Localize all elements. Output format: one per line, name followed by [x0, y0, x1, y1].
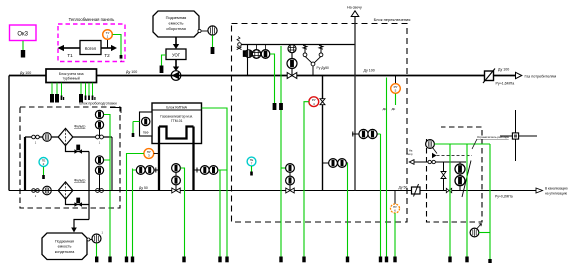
pipe: filter outlet vertical: [111, 137, 113, 191]
valve bubbles pair left on riser 1: [136, 166, 159, 175]
wire: green tap from main line with ДК labels: [383, 78, 396, 257]
bottom signal terminators row: [95, 257, 492, 264]
arrow: gas to consumers: [516, 72, 557, 78]
label Ду50 left: [139, 186, 148, 190]
wire: green tap from flare header: [280, 46, 282, 103]
label Ру1,6МПа under outlet valve: [496, 82, 515, 86]
flow restrictor cross symbol: [500, 110, 537, 161]
wire: green from УОГ left side: [162, 55, 167, 66]
svg-text:Ру≈1,6МПа: Ру≈1,6МПа: [496, 82, 515, 86]
analyzer sample loop (thick U pipe): [159, 127, 194, 191]
control valve station riser: [291, 45, 293, 76]
instrument bubble TE cyan near switching unit: [247, 157, 256, 166]
valve: closed valves pair on green taps: [273, 103, 283, 110]
svg-text:Ограничитель расхода: Ограничитель расхода: [477, 135, 509, 139]
pipe: drain vessel inlet line: [409, 160, 466, 165]
valve bubbles stacked on drain stub x290: [281, 164, 294, 191]
svg-text:ГТМ-01: ГТМ-01: [171, 119, 183, 123]
valve: closed valve under LT: [211, 47, 215, 54]
main gas pipe Ду100: [9, 75, 485, 77]
instrument bubble orange on sample riser: [144, 149, 154, 159]
vent fitting at flare header start: [237, 37, 242, 50]
svg-text:Подземная: Подземная: [166, 15, 187, 20]
wire: green header of drain vessel: [434, 143, 490, 145]
tank: Подземная емкость оборотная: [153, 11, 199, 37]
analyzer house box (Блок КИПиА): [152, 103, 202, 144]
wire: green stub under cyan TE: [250, 166, 253, 176]
valve: closed valve on УОГ drain: [160, 66, 164, 74]
svg-text:Блок переключения: Блок переключения: [374, 17, 411, 22]
wire: green from LT bubble down: [212, 35, 214, 47]
filter F1 (diamond): [58, 125, 85, 146]
svg-text:емкость: емкость: [58, 245, 72, 249]
svg-text:Т2: Т2: [104, 53, 110, 58]
valve: bowtie on drain header in vessel: [446, 188, 451, 192]
wire: tank nozzle to level bubble: [198, 29, 208, 32]
wire: green drops from metering box: [52, 83, 93, 96]
svg-text:Ду 100: Ду 100: [20, 71, 31, 75]
wire: green from flare drain tee: [378, 134, 381, 257]
svg-text:ДК: ДК: [383, 107, 387, 111]
instrument bubble orange at drain: [391, 204, 400, 213]
flange pair on branch 1: [32, 135, 40, 144]
filter unit dashed enclosure (Блок пробоподготовки): [20, 102, 121, 209]
wire: green under orange bubble: [395, 94, 397, 105]
svg-text:ДК: ДК: [392, 107, 396, 111]
pipe: filter header vertical: [24, 137, 26, 191]
wire: riser from main to filters: [8, 76, 10, 191]
outlet control valve to consumers: [483, 69, 495, 84]
valve: control bowtie on main line: [287, 73, 297, 79]
wire: green stub from middle valves: [181, 168, 185, 257]
wire: green to ГВФ box: [132, 122, 140, 138]
tank: Подземная емкость конденсата: [42, 233, 87, 260]
svg-text:турбинный: турбинный: [63, 77, 80, 81]
wire: green under LT bubble: [96, 243, 98, 256]
pipe: blowdown riser: [322, 76, 324, 191]
instrument bubble on vent: [426, 140, 437, 154]
vent line to flare (dashed): [406, 149, 472, 159]
label Ду100 left: [20, 71, 31, 75]
label: Ограничитель расхода: [472, 135, 509, 149]
svg-text:Подземная: Подземная: [55, 240, 74, 244]
valve: closed valve on filter 1 drain: [74, 145, 82, 154]
wire: green signal from TT bubble: [113, 35, 122, 56]
valve: bowtie on drain under analyzer: [172, 188, 180, 193]
valve bubbles stacked in drain vessel: [455, 161, 471, 198]
wire: green below orange drain bubble: [394, 213, 396, 257]
instrument bubble TT (orange) on heat panel: [103, 30, 113, 40]
wire: link bubble to riser: [154, 153, 159, 155]
instrument bubble on branch 2: [43, 186, 52, 195]
drain header Ду50: [9, 190, 536, 192]
arrow: drain to sewer: [536, 187, 568, 196]
wire: green stub under TE: [42, 167, 45, 179]
pipe: filter 2 drain to tank: [66, 152, 90, 233]
flange pair on branch 2: [32, 189, 40, 198]
flare tip symbol: [347, 6, 362, 17]
wire: stem to temperature bubble: [107, 40, 109, 49]
svg-text:Фильтр: Фильтр: [74, 125, 86, 129]
valve: closed valves under metering box: [50, 94, 83, 103]
terminator under green signal: [120, 55, 123, 63]
main pipe segment to consumers: [494, 75, 516, 77]
svg-text:Блок учета газа: Блок учета газа: [59, 72, 84, 76]
wire: green verticals of drain vessel: [450, 144, 490, 259]
svg-text:УОГ: УОГ: [172, 53, 181, 58]
wire: green drop from Ок3: [22, 41, 24, 50]
wire: green from dark valve bubble: [270, 54, 275, 103]
filter F2 (diamond): [58, 179, 85, 200]
valve circles pair on branch 1 outlet: [96, 135, 104, 144]
sample tee on blowdown riser: [323, 159, 349, 168]
pipe: stub from drain to orange bubble: [394, 191, 396, 205]
svg-text:На: На: [409, 149, 413, 153]
svg-text:Теплообменная панель: Теплообменная панель: [69, 17, 116, 22]
instrument bubble on station riser: [288, 45, 296, 53]
pipe: riser main to flare header: [247, 45, 249, 76]
valve: vertical bowtie on vessel leg: [441, 162, 446, 191]
valve: drain line gate valve box: [412, 184, 421, 197]
svg-text:на утилизацию: на утилизацию: [545, 192, 568, 196]
wire: green continues to bottom: [280, 110, 282, 257]
heat panel dashed enclosure (Теплообменная панель): [58, 17, 125, 62]
instrument bubble on branch 1: [43, 133, 52, 142]
instrument bubble red PI: [309, 97, 319, 107]
flare drain tee with valves: [352, 129, 378, 138]
svg-text:Газ потребителям: Газ потребителям: [525, 75, 557, 79]
sensor box ГВФ attached: [140, 112, 153, 136]
svg-text:Т1: Т1: [67, 53, 73, 58]
svg-text:Ру≈0,2МПа: Ру≈0,2МПа: [495, 195, 513, 199]
instrument bubble LT on condensate tank: [92, 231, 104, 244]
svg-text:свечу: свечу: [406, 153, 413, 156]
wire: stem of stacked gauges branch2: [99, 175, 101, 191]
PSV pair assembly: [303, 45, 329, 76]
equipment tag box Ок3: [10, 25, 37, 41]
valve bubble dark: [261, 45, 270, 59]
instrument bubble at vessel bottom: [470, 224, 481, 237]
svg-text:Ду 100: Ду 100: [364, 69, 375, 73]
heat exchanger box Котел: [80, 41, 101, 55]
wire: tank nozzle to level bubble: [87, 238, 92, 241]
wire: green from red bubble: [304, 102, 309, 257]
label Ду100 right-mid: [364, 69, 375, 73]
svg-text:Блок КИПиА: Блок КИПиА: [166, 105, 187, 109]
svg-text:оборотная: оборотная: [166, 26, 186, 31]
svg-text:Газоанализатор м.м.: Газоанализатор м.м.: [160, 115, 193, 119]
wire: green from right valve pair: [218, 170, 227, 257]
wire: green from stacked gauges to sample header: [104, 115, 110, 257]
svg-text:В канализацию: В канализацию: [545, 187, 568, 191]
gauge bubbles stacked (branch 2): [95, 156, 103, 175]
wire: green from КИПиА roof to sample header: [202, 108, 228, 257]
svg-text:Ру Ду50: Ру Ду50: [317, 66, 330, 70]
svg-text:емкость: емкость: [169, 21, 184, 26]
label Ду100 mid: [126, 70, 137, 74]
ball valve dark on riser: [245, 50, 253, 58]
flare stack line: [354, 17, 356, 191]
label Ду50 right: [399, 186, 408, 190]
instrument bubble TE cyan (branch 1): [39, 158, 48, 167]
metering unit box (Блок учета газа): [46, 69, 97, 83]
svg-text:На свечу: На свечу: [347, 6, 362, 10]
svg-text:Котел: Котел: [85, 46, 97, 51]
svg-text:Блок пробоподготовки: Блок пробоподготовки: [79, 102, 116, 106]
switching unit dashed enclosure (Блок переключения): [232, 17, 411, 222]
svg-text:Ду 50: Ду 50: [139, 186, 148, 190]
valve bubbles stacked middle: [172, 164, 181, 191]
wire: long green sample line: [133, 169, 137, 257]
pipe: tank outlet arrow down: [173, 37, 179, 49]
flare header pipe: [239, 44, 356, 46]
svg-text:Ду 100: Ду 100: [498, 68, 509, 72]
label Ру0,2МПа: [495, 195, 513, 199]
wire: green link bubble to vertical: [479, 232, 490, 234]
instrument bubble orange under main line: [391, 76, 401, 94]
valve: bowtie on drain at x290: [286, 188, 294, 193]
svg-text:ГВФ: ГВФ: [143, 131, 150, 135]
svg-text:конденсата: конденсата: [55, 250, 75, 254]
pipe: filter branch 1: [25, 136, 112, 138]
valve circles pair on branch 2 outlet: [96, 189, 104, 193]
wire: T2 inlet with arrow: [101, 45, 117, 58]
drain vessel dashed enclosure: [427, 127, 483, 222]
valve: closed gate on riser: [243, 50, 247, 57]
instrument bubble crosshatched: [252, 45, 261, 59]
svg-text:Ок3: Ок3: [17, 32, 28, 38]
apparatus box УОГ: [166, 49, 186, 60]
gauge bubbles stacked (branch 1): [95, 110, 103, 129]
valve: bowtie on blowdown riser: [320, 99, 325, 105]
wire: T1 outlet with arrow: [58, 45, 81, 58]
label Ду100 far right: [498, 68, 509, 72]
svg-text:Ду 50: Ду 50: [399, 186, 408, 190]
instrument bubble LT on tank: [208, 26, 217, 35]
valve bubbles pair right on riser 2: [194, 166, 218, 175]
svg-text:Фильтр: Фильтр: [74, 179, 86, 183]
pipe: УОГ outlet arrow down: [173, 60, 179, 72]
valve: closed valve under Ок3: [21, 50, 25, 58]
svg-text:Ду 100: Ду 100: [126, 70, 137, 74]
wire: green from sample tee: [347, 163, 349, 257]
valve: closed valve on filter 2 drain: [74, 198, 82, 207]
pump P1 on main line: [171, 71, 181, 81]
wire: stem of stacked gauges branch1: [99, 129, 101, 138]
pipe: filter 1 drain: [66, 146, 90, 152]
wire: green from orange bubble down: [127, 154, 144, 257]
small terminators under metering box: [61, 96, 96, 101]
actuator bubble dark: [287, 59, 297, 69]
